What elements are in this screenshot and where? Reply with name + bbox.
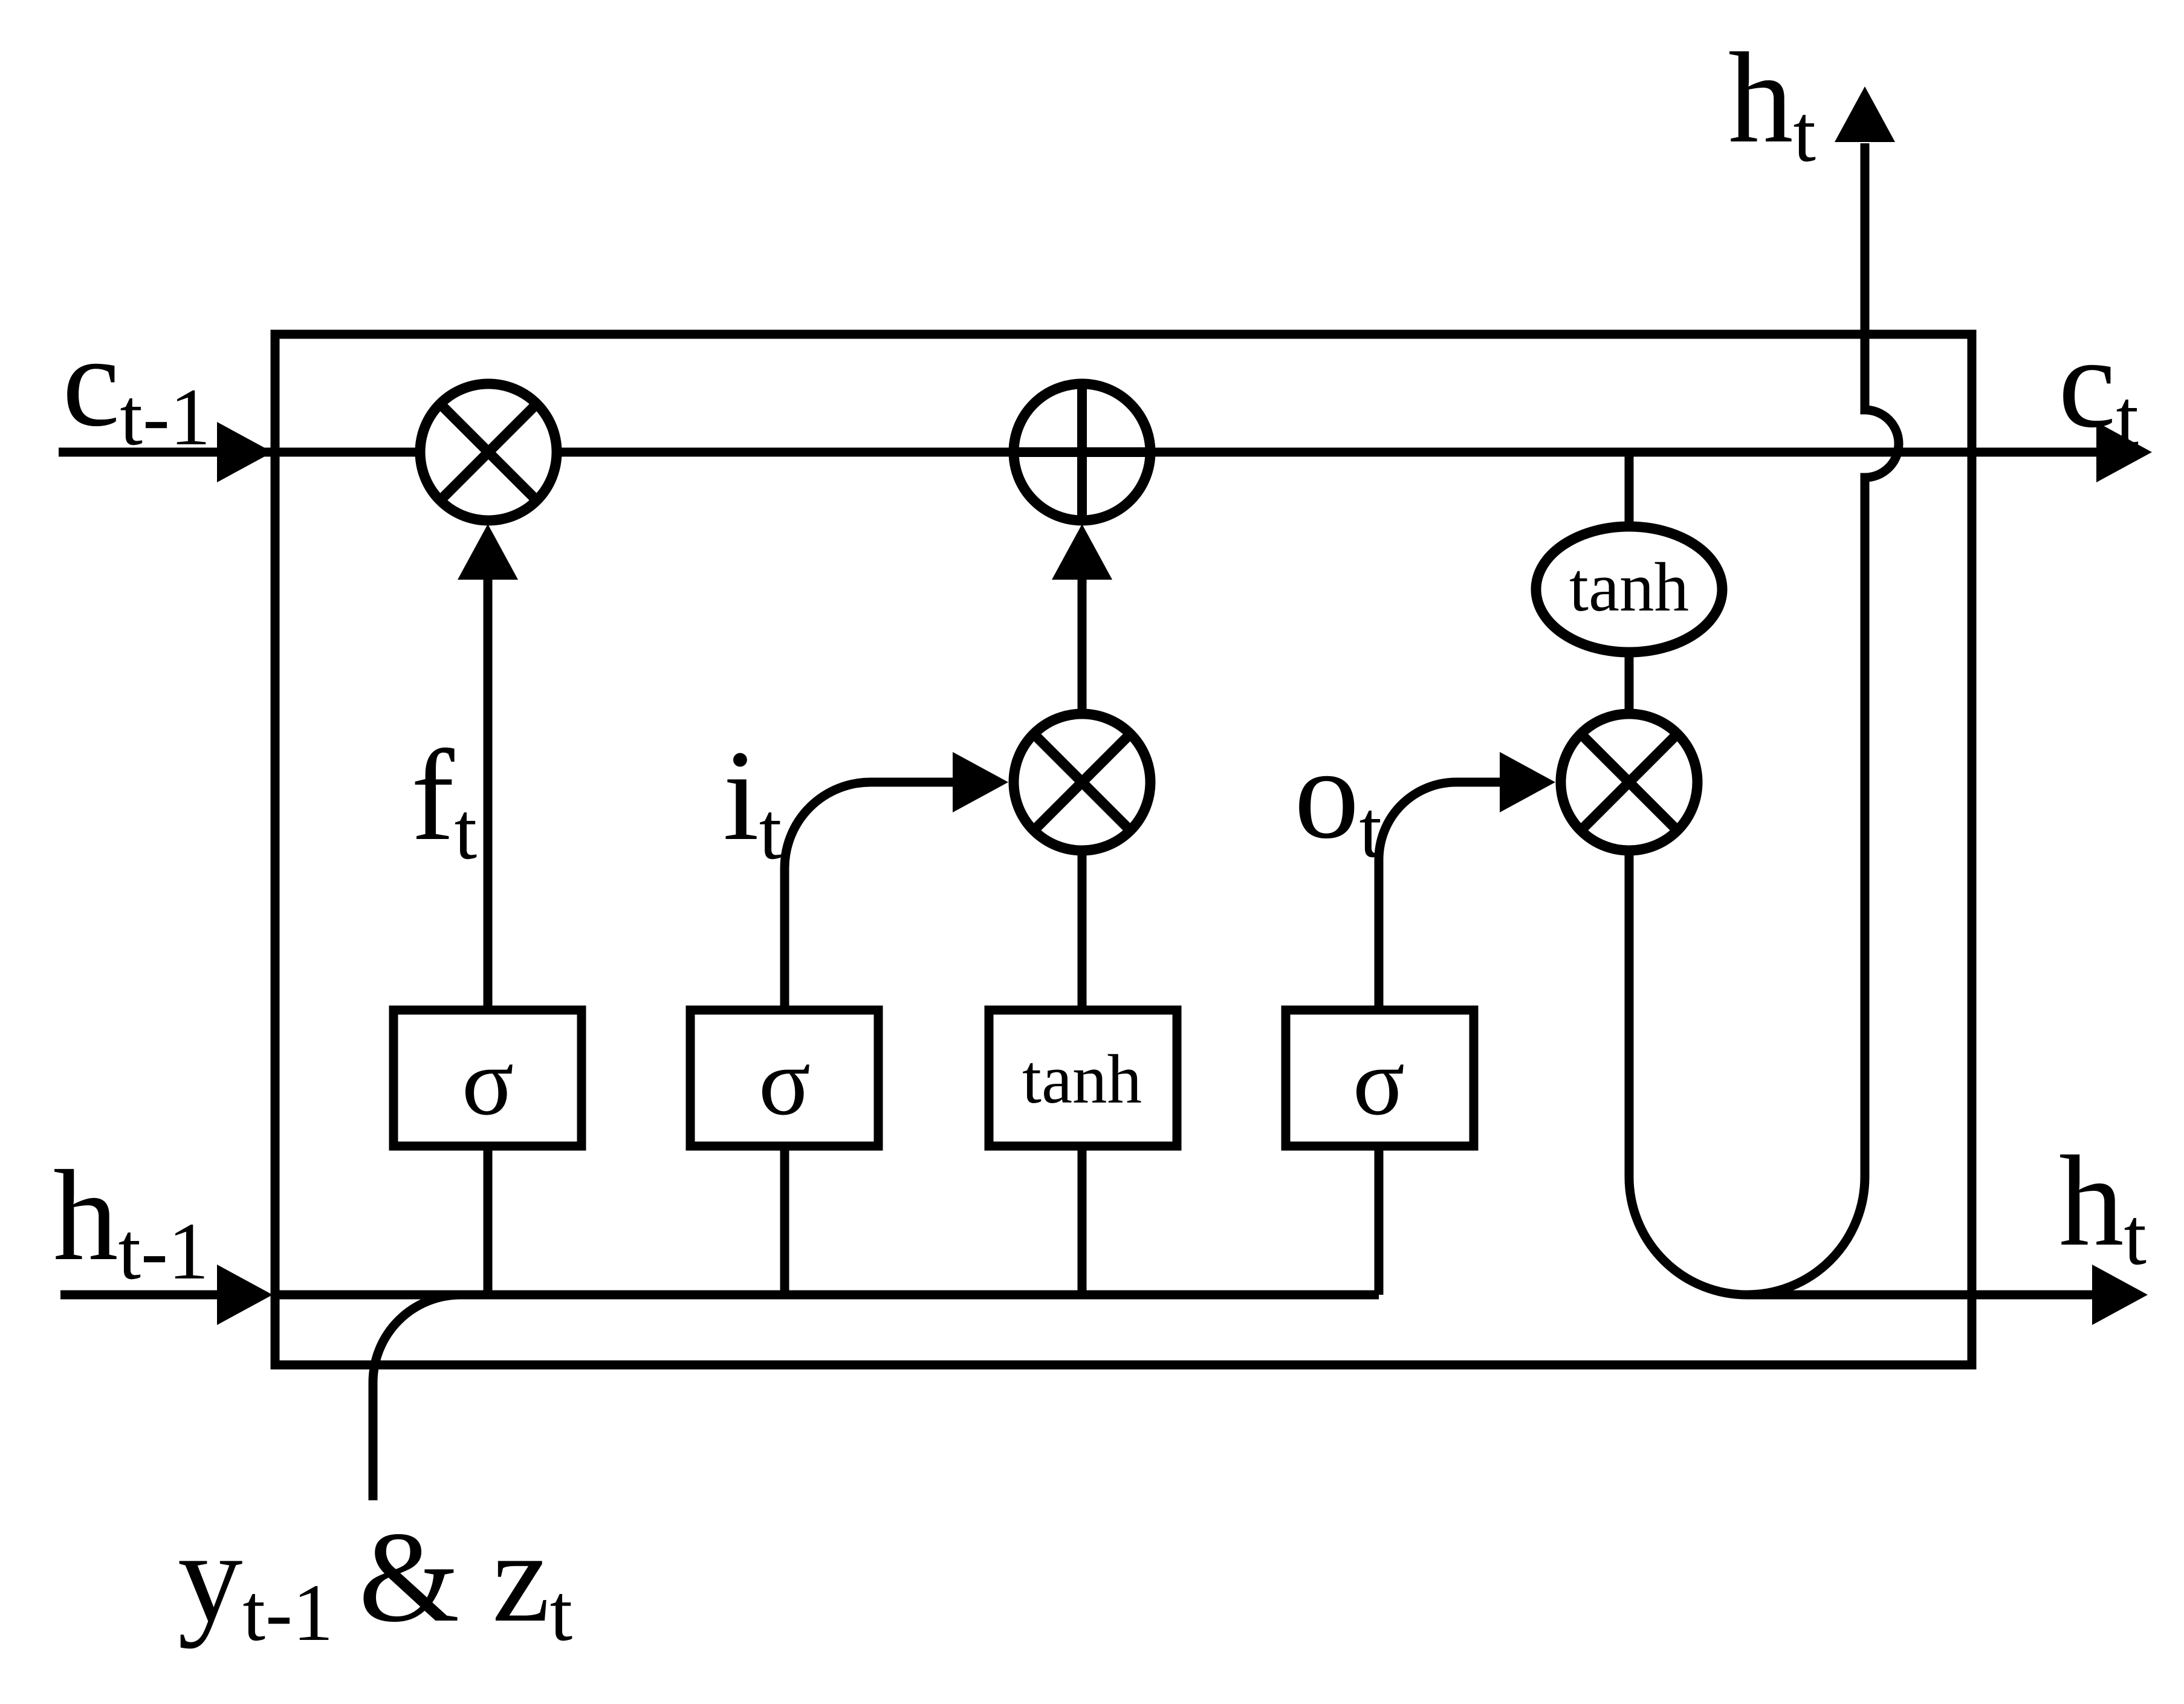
wire: o_t curve (box4 top to right multiplier)	[1379, 782, 1502, 1010]
svg-text:yt-1 & zt: yt-1 & zt	[178, 1505, 572, 1658]
svg-text:tanh: tanh	[1569, 549, 1689, 626]
svg-text:σ: σ	[1353, 1028, 1405, 1135]
wire: sigma box2 bottom stub	[780, 1142, 789, 1295]
arrowhead: o_t into right multiplier	[1500, 752, 1555, 812]
wire: c-line stub down to tanh ellipse	[1625, 452, 1634, 532]
arrowhead: into adder from below	[1052, 524, 1112, 580]
wire: tanh box3 top to middle multiplier	[1078, 850, 1087, 1010]
multiplier node (input gate)	[1014, 714, 1150, 850]
wire: middle multiplier to adder	[1078, 580, 1087, 716]
arrowhead: f_t into left multiplier	[458, 524, 518, 580]
arrowhead: i_t into middle multiplier	[953, 752, 1008, 812]
svg-text:σ: σ	[759, 1028, 811, 1135]
arrowhead: h_t output top	[1835, 86, 1895, 142]
arrowhead: c_{t-1} into cell	[217, 422, 273, 482]
tanh gate box3	[989, 1010, 1177, 1146]
wire: sigma box4 bottom stub	[1375, 1142, 1384, 1295]
svg-text:σ: σ	[462, 1028, 514, 1135]
sigma gate box4	[1286, 1010, 1474, 1146]
multiplier node (forget gate)	[420, 384, 557, 520]
wire: tanh ellipse to right multiplier	[1625, 652, 1634, 719]
svg-text:tanh: tanh	[1022, 1041, 1142, 1118]
wire: c-line horizontal (c_{t-1} to c_t)	[59, 448, 2099, 457]
wire: y_{t-1} & z_t input curve	[373, 1295, 461, 1500]
wire: h_t output line to the right	[1747, 1291, 2092, 1300]
LSTM cell outer rectangle	[275, 334, 1972, 1365]
arrowhead: h_{t-1} into cell	[217, 1265, 273, 1325]
wire: sigma box1 bottom stub	[484, 1142, 493, 1295]
sigma gate box1	[394, 1010, 582, 1146]
arrowhead: h_t output right	[2092, 1265, 2148, 1325]
adder node	[1014, 384, 1150, 520]
wire: h_{t-1} input line outside	[60, 1291, 224, 1300]
arrowhead: c_t output	[2096, 422, 2152, 482]
wire: i_t curve (box2 top to middle multiplier)	[785, 782, 955, 1010]
multiplier node (output gate)	[1561, 714, 1697, 850]
tanh ellipse node	[1536, 526, 1722, 652]
sigma gate box2	[690, 1010, 878, 1146]
wire: f_t line (box1 top to multiplier)	[484, 580, 493, 1010]
wire: gates feed line (h_{t-1} internal bus)	[275, 1291, 1379, 1300]
wire: tanh box3 bottom stub	[1078, 1142, 1087, 1295]
wire: U-turn from right multiplier up to h_t with hop over c-line	[1629, 143, 1899, 1295]
